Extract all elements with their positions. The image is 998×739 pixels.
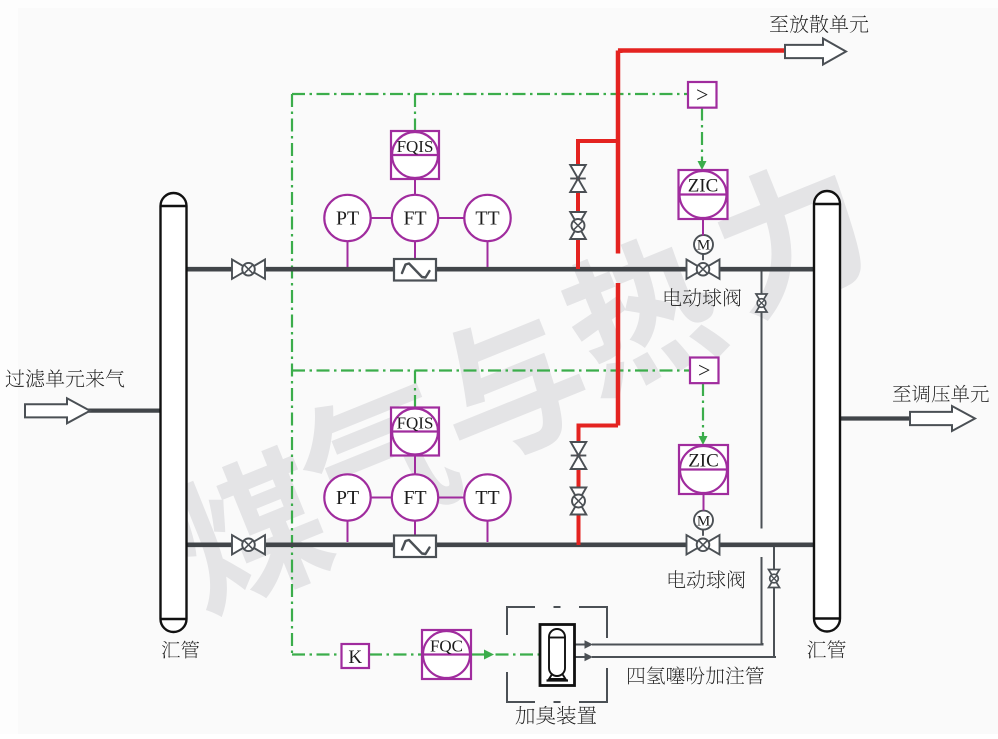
wire: red main vertical lower part	[616, 283, 621, 426]
blow-off flow arrow	[785, 39, 846, 65]
wire: ZIC to M stem (upper)	[702, 219, 704, 236]
svg-text:FQIS: FQIS	[397, 137, 434, 156]
valve: upper blow-off ball valve	[570, 212, 586, 239]
svg-text:ZIC: ZIC	[688, 176, 719, 197]
right header vessel 汇管	[814, 191, 840, 632]
valve: lower motorized ball valve with actuator M	[687, 511, 720, 555]
wire: upper main pipe	[186, 267, 814, 272]
wire: THT line 1 horizontal	[575, 643, 763, 645]
instrument TT (upper)	[464, 195, 510, 241]
label 加臭装置	[516, 706, 596, 725]
wire: green drop to lower FQIS	[414, 371, 416, 408]
wire: PT stem (lower)	[347, 521, 349, 542]
wire: green signal upper horizontal	[292, 93, 688, 95]
high selector > (upper)	[688, 82, 717, 108]
instrument FQC	[422, 630, 471, 679]
odorizer cylinder	[547, 629, 569, 681]
svg-text:FT: FT	[403, 208, 426, 230]
left header vessel 汇管	[161, 193, 187, 632]
wire: TT stem (lower)	[487, 521, 489, 542]
svg-text:>: >	[696, 82, 708, 107]
wire: FQIS to FT stem (lower)	[414, 456, 416, 475]
flow element (upper)	[394, 259, 436, 281]
odorizer vessel box	[540, 625, 575, 686]
instrument FT (lower)	[392, 474, 438, 520]
inlet flow arrow	[25, 398, 90, 423]
wire: PT-FT connector (upper)	[371, 217, 392, 219]
instrument FT (upper)	[392, 195, 438, 241]
svg-text:K: K	[348, 647, 362, 668]
wire: THT line 2 horizontal	[575, 656, 776, 657]
label 汇管 (left)	[162, 641, 199, 659]
wire: green from lower high-select to ZIC	[699, 383, 708, 445]
wire: FT stem (lower)	[414, 521, 416, 536]
svg-text:>: >	[698, 357, 710, 382]
flow element (lower)	[394, 536, 436, 558]
high selector > (lower)	[690, 357, 719, 383]
wire: inlet pipe	[88, 409, 161, 413]
svg-text:FQC: FQC	[430, 637, 463, 656]
wire: green FQC to odorizer with arrow	[471, 650, 540, 660]
valve: lower pipe inlet ball valve	[232, 535, 265, 554]
label 至调压单元	[893, 385, 989, 403]
svg-text:M: M	[697, 238, 710, 254]
label 过滤单元来气	[6, 369, 125, 387]
valve: upper blow-off gate valve	[570, 165, 586, 192]
wire: FT-TT connector (upper)	[438, 217, 464, 219]
valve: lower blow-off gate valve	[571, 442, 587, 469]
wire: green bottom horizontal to K	[292, 653, 342, 655]
wire: PT stem (upper)	[347, 241, 349, 267]
wire: green K to FQC	[369, 653, 422, 655]
valve: upper motorized ball valve with actuator M	[687, 235, 720, 279]
svg-text:TT: TT	[475, 208, 499, 230]
wire: ZIC to M stem (lower)	[703, 494, 705, 511]
wire: red main vertical upper part	[616, 51, 621, 254]
wire: red upper branch	[578, 141, 618, 269]
instrument ZIC (lower)	[679, 445, 728, 494]
wire: FT stem (upper)	[414, 241, 416, 259]
instrument PT (upper)	[324, 195, 370, 241]
valve: upper pipe inlet ball valve	[232, 260, 265, 279]
outlet flow arrow	[910, 406, 975, 431]
instrument FQIS (lower)	[391, 408, 439, 456]
svg-text:ZIC: ZIC	[688, 451, 719, 472]
wire: lower main pipe	[186, 542, 814, 547]
label 电动球阀 (upper)	[665, 288, 741, 306]
wire: FQIS to FT stem (upper)	[414, 179, 416, 195]
wire: red lower branch	[579, 426, 619, 546]
wire: green signal lower horizontal	[292, 369, 690, 371]
wire: green from upper high-select to ZIC	[698, 108, 707, 171]
wire: PT-FT connector (lower)	[371, 497, 392, 499]
label 电动球阀 (lower)	[669, 570, 745, 588]
label 四氢噻吩加注管	[628, 666, 764, 684]
wire: TT stem (upper)	[487, 241, 489, 267]
wire: FT-TT connector (lower)	[438, 497, 464, 499]
wire: THT line 2 vertical (to lower pipe)	[773, 547, 775, 657]
valve: lower blow-off ball valve	[571, 488, 587, 515]
svg-text:FT: FT	[403, 487, 426, 509]
wire: THT line 1 vertical (to upper pipe)	[761, 272, 763, 529]
wire: red blow-off header horizontal	[620, 51, 787, 54]
wire: green drop to upper FQIS	[414, 94, 416, 131]
watermark 煤气与热力	[158, 439, 344, 623]
svg-text:M: M	[697, 513, 710, 529]
svg-text:TT: TT	[475, 487, 499, 509]
svg-text:PT: PT	[336, 487, 359, 509]
svg-text:FQIS: FQIS	[397, 414, 434, 433]
wire: outlet pipe	[841, 416, 914, 420]
computing relay K	[342, 644, 370, 668]
instrument FQIS (upper)	[391, 131, 439, 179]
label 汇管 (right)	[807, 640, 845, 658]
svg-text:PT: PT	[336, 208, 359, 230]
instrument TT (lower)	[464, 474, 510, 520]
valve: THT line 2 small valve	[769, 570, 780, 588]
odorizer dashed enclosure	[507, 607, 607, 702]
label 至放散单元	[770, 15, 868, 33]
wire: green signal trunk vertical	[291, 94, 293, 655]
instrument PT (lower)	[324, 474, 370, 520]
instrument ZIC (upper)	[679, 170, 728, 219]
valve: THT line 1 small valve	[756, 294, 767, 312]
